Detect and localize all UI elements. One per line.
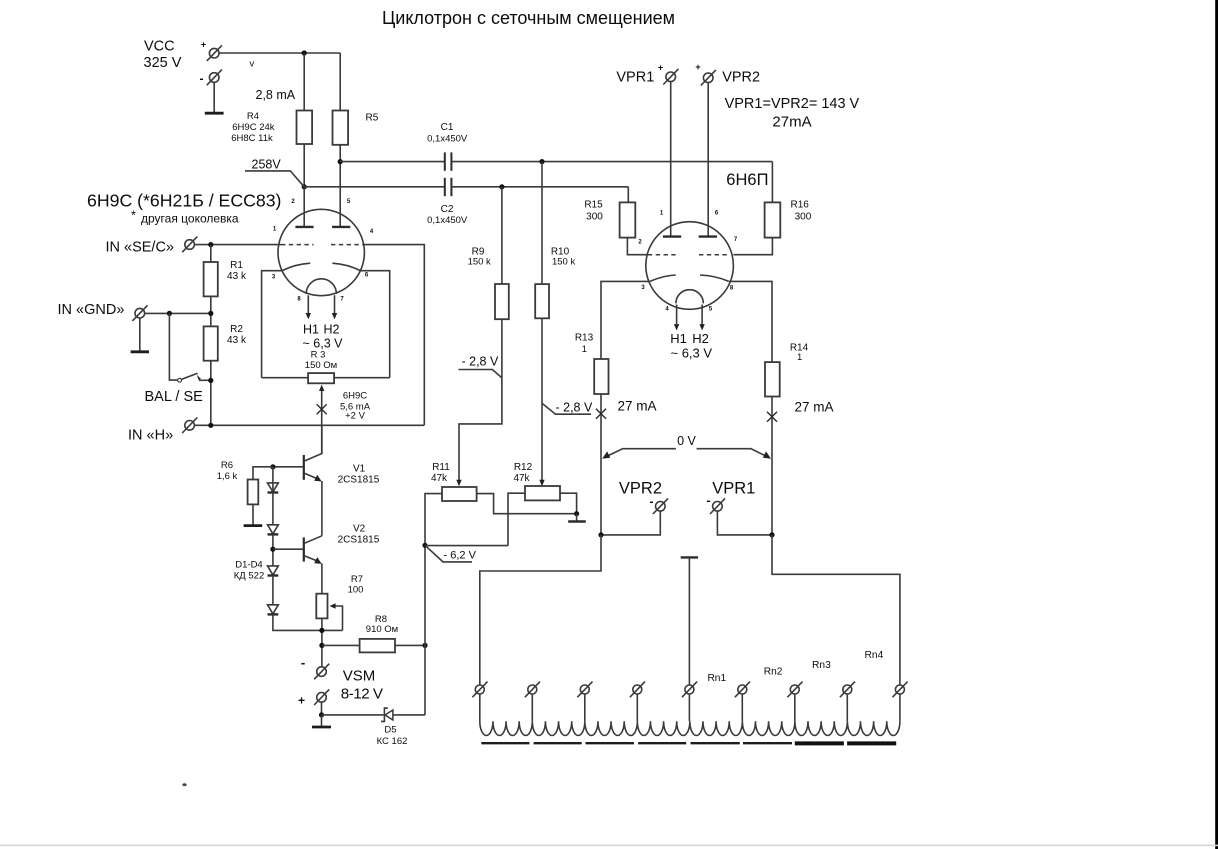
svg-text:150 Ом: 150 Ом <box>305 360 337 371</box>
node R2/switch <box>208 378 213 383</box>
wire D5 left <box>322 714 384 716</box>
svg-text:27 mA: 27 mA <box>618 398 657 413</box>
resistor R9 <box>495 284 509 319</box>
terminal VPR1 meas <box>710 498 725 514</box>
tube U1 plate pin2 <box>295 226 313 228</box>
wire R8 left <box>322 644 360 646</box>
svg-text:47k: 47k <box>431 473 448 484</box>
diode D3 <box>268 566 279 575</box>
wire box bottom <box>262 377 309 379</box>
wire C1 right <box>452 161 773 163</box>
node -6,2V <box>422 543 427 548</box>
transformer core <box>481 742 792 744</box>
ground R6 <box>252 504 254 524</box>
wire R9 top <box>501 187 503 284</box>
wire VPR2 drop <box>707 83 709 237</box>
tube U1 grid pin1 <box>281 244 314 246</box>
svg-text:~ 6,3 V: ~ 6,3 V <box>303 336 344 350</box>
capacitor C1 <box>445 152 452 170</box>
svg-text:H1: H1 <box>670 331 687 346</box>
wire R15 top <box>627 186 629 188</box>
switch BAL/SE <box>178 378 182 382</box>
node base V2 <box>270 547 275 552</box>
terminal IN GND <box>132 305 147 321</box>
svg-text:IN «GND»: IN «GND» <box>58 302 125 318</box>
node 258V <box>302 184 307 189</box>
wiper R7 <box>330 603 336 608</box>
resistor R1 <box>204 262 218 296</box>
wire R1 top <box>210 245 212 262</box>
svg-text:VSM: VSM <box>343 668 376 685</box>
tube U1 plate pin5 <box>332 226 350 228</box>
wire IN GND <box>145 312 211 314</box>
resistor R13 <box>594 359 608 394</box>
svg-text:R5: R5 <box>366 113 379 124</box>
svg-text:150 k: 150 k <box>552 257 575 268</box>
svg-text:6Н9С: 6Н9С <box>343 390 367 401</box>
svg-text:Rn4: Rn4 <box>865 650 884 661</box>
wire IN SE/C <box>194 244 281 246</box>
svg-text:R 3: R 3 <box>311 349 326 360</box>
node GND/R12div <box>208 311 213 316</box>
node C2/R9 <box>499 184 504 189</box>
svg-text:2CS1815: 2CS1815 <box>338 474 380 485</box>
svg-text:VPR2: VPR2 <box>722 70 760 86</box>
svg-text:300: 300 <box>795 212 812 223</box>
set mark X R3 <box>317 404 327 414</box>
terminal VCC- <box>207 70 222 86</box>
svg-text:258V: 258V <box>252 158 282 172</box>
terminal Tr tap 8 <box>840 682 855 698</box>
tube U1 heater bump <box>306 279 336 294</box>
wire R11 right <box>477 494 577 514</box>
wire chain bottom <box>273 614 343 630</box>
terminal Tr tap 9 <box>893 682 908 698</box>
resistor R14 <box>765 362 780 396</box>
svg-text:2CS1815: 2CS1815 <box>338 535 380 546</box>
svg-text:47k: 47k <box>513 473 530 484</box>
svg-text:27 mA: 27 mA <box>795 400 834 415</box>
diode D5 zener <box>381 708 388 721</box>
svg-text:6Н9С 24k: 6Н9С 24k <box>232 122 274 133</box>
svg-text:0 V: 0 V <box>677 434 696 448</box>
terminal VPR1 <box>663 69 678 85</box>
resistor R8 <box>360 639 395 653</box>
svg-text:6Н8С 11k: 6Н8С 11k <box>231 133 273 144</box>
svg-text:другая цоколевка: другая цоколевка <box>141 212 239 226</box>
wire diode chain top <box>272 467 274 483</box>
resistor R4 <box>297 111 313 145</box>
transformer winding <box>480 721 900 735</box>
wire R10 bottom <box>541 318 543 480</box>
wire R2 bottom <box>210 361 212 426</box>
resistor R10 <box>535 284 549 318</box>
wire -6,2 node rail <box>425 545 508 547</box>
svg-text:R16: R16 <box>791 200 810 211</box>
svg-text:43 k: 43 k <box>227 335 247 346</box>
wire V2 base <box>273 548 303 550</box>
resistor R7 <box>316 594 327 619</box>
wire left leg to Tr <box>480 535 601 685</box>
wire VSM+ down <box>321 702 323 715</box>
dim 0V left <box>604 449 676 458</box>
node H/R2 <box>208 423 213 428</box>
wire switch drop <box>169 313 178 380</box>
node C1/R10 <box>539 159 544 164</box>
wire V1e-V2c <box>321 481 323 536</box>
wire R6 link <box>253 467 273 480</box>
svg-text:Циклотрон с сеточным смещением: Циклотрон с сеточным смещением <box>382 8 675 28</box>
wire R4 top <box>303 53 305 111</box>
wire R10 top <box>541 162 543 285</box>
page bottom rule <box>0 845 1218 847</box>
capacitor C2 <box>445 178 452 196</box>
wire R16 top <box>771 162 773 203</box>
svg-text:6Н6П: 6Н6П <box>726 171 768 189</box>
svg-text:1: 1 <box>582 344 587 355</box>
svg-text:+: + <box>695 62 700 72</box>
tube U1 cathode right <box>332 263 361 271</box>
node VSM+/D5 <box>319 712 324 717</box>
tube U1 envelope <box>278 209 364 295</box>
wire V2e-R7 <box>321 563 323 593</box>
tube U2 grid pin7 <box>699 254 730 256</box>
node left leg <box>598 532 603 537</box>
svg-text:- 6,2 V: - 6,2 V <box>444 549 477 561</box>
node pots ground <box>574 511 579 516</box>
terminal Tr tap 4 <box>630 682 645 698</box>
tube U2 heater bump <box>676 290 703 304</box>
svg-text:+: + <box>201 40 206 50</box>
wire VPR2 meas <box>601 511 660 535</box>
wire R15 bottom <box>627 238 648 255</box>
diode D1 <box>272 483 274 493</box>
center tap bar <box>681 556 698 558</box>
svg-text:BAL / SE: BAL / SE <box>145 389 204 405</box>
terminal VCC+ <box>207 45 222 61</box>
wire U2 pin3 <box>601 281 650 359</box>
resistor R16 <box>765 202 781 237</box>
transistor V2 <box>303 537 305 561</box>
svg-text:IN «Н»: IN «Н» <box>128 427 173 443</box>
terminal Tr tap 7 <box>787 682 802 698</box>
wire right riser <box>424 545 426 715</box>
terminal VSM- <box>314 664 329 680</box>
svg-text:+2 V: +2 V <box>345 411 365 422</box>
svg-text:R13: R13 <box>575 333 594 344</box>
svg-text:8-12 V: 8-12 V <box>341 685 384 702</box>
svg-text:V2: V2 <box>353 524 366 535</box>
svg-text:VPR2: VPR2 <box>619 479 662 497</box>
wire VPR1 meas <box>717 511 772 535</box>
terminal Tr tap 6 <box>735 682 750 698</box>
svg-text:150 k: 150 k <box>468 257 491 268</box>
stray ink dot <box>182 783 186 786</box>
svg-text:+: + <box>298 694 305 708</box>
resistor R2 <box>204 326 218 360</box>
svg-text:1,6 k: 1,6 k <box>217 471 238 482</box>
node right leg <box>769 532 774 537</box>
svg-text:- 2,8 V: - 2,8 V <box>556 401 593 415</box>
resistor R5 <box>333 111 349 145</box>
page right border <box>1215 0 1218 849</box>
set mark X R13 <box>596 409 606 419</box>
svg-text:КС 162: КС 162 <box>377 736 408 747</box>
svg-text:H1: H1 <box>303 322 319 336</box>
wire C1 left <box>340 161 444 163</box>
svg-text:325 V: 325 V <box>144 55 182 71</box>
svg-text:-: - <box>301 655 305 670</box>
svg-text:-: - <box>200 72 204 86</box>
svg-text:*: * <box>131 209 136 223</box>
label -6,2V <box>425 545 472 562</box>
svg-text:C2: C2 <box>441 204 454 215</box>
wire VCC+ rail <box>219 52 340 54</box>
svg-text:27mA: 27mA <box>772 113 811 130</box>
wire D5 right <box>393 714 425 716</box>
dim 0V right <box>697 449 770 458</box>
wire R9 bottom <box>459 319 502 480</box>
svg-text:-: - <box>707 493 711 507</box>
ground IN GND <box>139 318 141 351</box>
wire box left pin3 <box>262 271 282 378</box>
terminal VPR2 meas <box>653 498 668 514</box>
wire R11 left <box>425 494 442 546</box>
svg-text:0,1x450V: 0,1x450V <box>427 215 468 226</box>
svg-text:1: 1 <box>797 352 802 363</box>
wire IN H rail <box>194 424 424 426</box>
wire R16 bottom <box>733 238 772 255</box>
terminal Tr tap 5 (CT) <box>682 682 697 698</box>
tube U2 envelope <box>646 222 734 310</box>
svg-text:V1: V1 <box>353 463 366 474</box>
transistor V1 <box>303 455 305 480</box>
diode D4 <box>268 605 279 614</box>
svg-text:Rn3: Rn3 <box>812 660 831 671</box>
svg-text:2,8 mA: 2,8 mA <box>256 88 296 102</box>
svg-text:VPR1: VPR1 <box>616 70 654 86</box>
tube U2 cathode right <box>700 275 729 281</box>
terminal IN SE/C <box>182 237 197 253</box>
wire R7 bottom <box>321 618 323 666</box>
wire D1-D2 <box>272 493 274 525</box>
svg-text:6Н9С (*6Н21Б / ECC83): 6Н9С (*6Н21Б / ECC83) <box>87 191 281 211</box>
node SEC/R1 <box>208 242 213 247</box>
svg-text:R15: R15 <box>584 199 603 210</box>
wire C2 left <box>304 186 444 188</box>
tube U1 grid pin4 <box>331 244 363 246</box>
node GND/switch <box>167 311 172 316</box>
svg-text:Rn2: Rn2 <box>764 666 783 677</box>
node R8 right <box>422 643 427 648</box>
wire D3-D4 <box>272 576 274 605</box>
wire D2-D3 <box>272 534 274 566</box>
wire R1 bottom <box>210 296 212 326</box>
svg-text:R11: R11 <box>432 462 450 473</box>
svg-text:VCC: VCC <box>144 38 175 54</box>
svg-text:-: - <box>650 494 654 508</box>
wire R13 bottom <box>600 394 602 535</box>
tube U1 cathode left <box>282 263 311 271</box>
node VCC/R4 <box>302 50 307 55</box>
terminal Tr tap 1 <box>472 682 487 698</box>
svg-text:R6: R6 <box>221 460 233 471</box>
terminal VSM+ <box>314 689 329 705</box>
terminal Tr tap 2 <box>525 682 540 698</box>
terminal IN H <box>182 417 197 433</box>
wire R12 right <box>560 493 577 514</box>
svg-text:v: v <box>250 58 255 69</box>
svg-text:D5: D5 <box>384 724 396 735</box>
wire U2 heater pin5 arrow <box>701 305 703 325</box>
wire R4 bottom <box>303 144 305 187</box>
svg-text:R1: R1 <box>230 260 243 271</box>
wire U1 heater pin8 arrow <box>307 295 309 313</box>
svg-text:~ 6,3 V: ~ 6,3 V <box>671 345 713 360</box>
svg-text:43 k: 43 k <box>227 271 247 282</box>
svg-text:VPR1: VPR1 <box>712 479 755 497</box>
wire R14 bottom <box>771 397 773 535</box>
svg-text:0,1x450V: 0,1x450V <box>427 134 468 145</box>
wire U2 pin8 <box>729 281 772 362</box>
svg-text:+: + <box>658 62 663 72</box>
svg-text:100: 100 <box>348 584 364 595</box>
svg-text:IN «SE/C»: IN «SE/C» <box>106 239 175 255</box>
ground VSM+ <box>321 715 323 726</box>
wire R3 wiper <box>321 391 323 454</box>
resistor R12 <box>525 486 560 500</box>
wire C2 right <box>452 186 629 188</box>
ground VCC- <box>213 83 215 113</box>
svg-text:H2: H2 <box>692 331 709 346</box>
svg-text:300: 300 <box>586 211 603 222</box>
wire box right edge <box>363 245 424 426</box>
svg-text:R12: R12 <box>514 462 533 473</box>
terminal Tr tap 3 <box>577 682 592 698</box>
svg-text:Rn1: Rn1 <box>707 673 726 684</box>
resistor R11 <box>442 487 477 501</box>
wire R5 top <box>339 53 341 111</box>
wire U1 heater pin7 arrow <box>334 295 336 313</box>
tube U2 cathode left <box>650 275 676 281</box>
wire R8 right <box>395 644 425 646</box>
svg-text:H2: H2 <box>324 322 340 336</box>
wire box right pin6 <box>361 271 390 378</box>
wire center tap <box>688 557 690 684</box>
terminal VPR2 <box>701 70 716 86</box>
ground pots <box>576 514 578 521</box>
svg-text:D1-D4: D1-D4 <box>235 559 262 570</box>
svg-text:КД 522: КД 522 <box>234 570 264 581</box>
svg-text:VPR1=VPR2= 143 V: VPR1=VPR2= 143 V <box>725 96 860 112</box>
resistor R6 <box>248 480 259 505</box>
node R7/chain <box>319 628 324 633</box>
node base V1 <box>270 464 275 469</box>
wire R12 left <box>508 493 525 545</box>
tube U2 plate pin1 <box>663 235 681 237</box>
svg-text:R4: R4 <box>247 111 259 122</box>
tube U2 grid pin2 <box>648 254 679 256</box>
svg-text:- 2,8 V: - 2,8 V <box>462 355 499 369</box>
wire VPR1 drop <box>670 82 672 237</box>
diode D2 <box>268 525 279 534</box>
label -2,8V b <box>542 403 591 414</box>
wire right leg to Tr <box>772 535 900 685</box>
resistor R15 <box>620 202 636 237</box>
svg-text:910 Ом: 910 Ом <box>366 624 398 635</box>
wire U2 heater pin4 arrow <box>676 305 678 325</box>
resistor R3 <box>308 373 334 383</box>
svg-text:C1: C1 <box>441 122 454 133</box>
set mark X R14 <box>767 412 777 422</box>
node R5/C1 <box>338 159 343 164</box>
tube U2 plate pin6 <box>699 235 717 237</box>
wire R5 bottom <box>339 145 341 227</box>
node R7/R8 <box>319 643 324 648</box>
svg-text:R2: R2 <box>230 324 243 335</box>
